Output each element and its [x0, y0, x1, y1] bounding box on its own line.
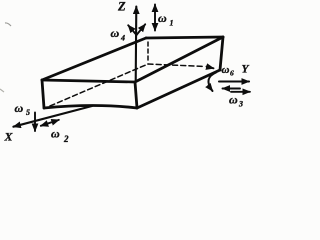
- wire: hidden bottom-back edge (dashed horizontal): [148, 64, 205, 67]
- svg-text:4: 4: [120, 34, 125, 43]
- omega5 arrow: [34, 113, 36, 132]
- svg-text:ω: ω: [229, 93, 238, 107]
- wire: brick bottom-front-left edge L'-F': [44, 106, 137, 109]
- svg-text:2: 2: [63, 134, 69, 143]
- omega4 arrow left arm: [128, 25, 136, 35]
- svg-text:3: 3: [238, 100, 243, 109]
- svg-text:Y: Y: [242, 64, 250, 76]
- svg-text:ω: ω: [158, 11, 167, 25]
- svg-text:ω: ω: [15, 101, 24, 115]
- svg-text:1: 1: [170, 19, 174, 28]
- scan speckle left edge: [0, 89, 4, 92]
- svg-text:ω: ω: [111, 26, 120, 40]
- omega6 curved arrow: [208, 73, 216, 92]
- svg-text:ω: ω: [222, 64, 230, 76]
- axis Z: [135, 7, 138, 83]
- omega4 arrow right arm: [137, 24, 146, 35]
- scan speckle top-left: [5, 23, 11, 26]
- wire: brick front vertical edge F-F': [135, 82, 137, 108]
- omega3 arrow left part: [223, 88, 241, 90]
- axis Y: [219, 80, 249, 82]
- wire: brick front-top-right edge F-R: [135, 37, 223, 82]
- wire: brick top-left edge L-B: [42, 38, 146, 80]
- svg-text:ω: ω: [51, 127, 60, 141]
- svg-text:X: X: [4, 130, 14, 144]
- wire: brick bottom-front-right edge F'-R': [137, 70, 220, 108]
- wire: brick top-back edge B-R: [146, 37, 223, 38]
- wire: hidden bottom edge (dashed diagonal): [50, 64, 148, 106]
- wire: hidden back vertical edge (dashed): [147, 42, 149, 63]
- svg-text:6: 6: [230, 69, 234, 78]
- omega3 arrow right part: [231, 91, 250, 93]
- axis X: [13, 106, 92, 127]
- omega2 arrow (double headed): [41, 120, 59, 126]
- wire: brick front-top-left edge L-F: [42, 80, 135, 82]
- wire: brick right vertical edge R-R': [220, 37, 223, 70]
- wire: brick left vertical edge L-L': [42, 80, 44, 108]
- omega1 arrow (double headed vertical): [154, 5, 156, 31]
- svg-text:5: 5: [26, 108, 30, 117]
- svg-text:Z: Z: [117, 0, 126, 14]
- omega6 straight arrow along dashed axis: [207, 67, 214, 69]
